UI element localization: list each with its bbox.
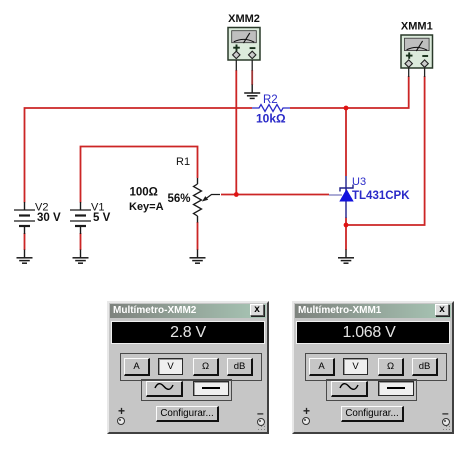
reading display 1.068 V <box>296 321 450 344</box>
battery V1 <box>70 202 111 235</box>
XMM1 pin stubs <box>409 68 425 77</box>
ground under V1 <box>73 250 89 264</box>
button AC <box>146 381 183 397</box>
wire XMM1 minus down to anode node <box>346 76 425 225</box>
wire XMM2 minus to ground <box>251 70 253 85</box>
reading display 2.8 V <box>111 321 265 344</box>
svg-text:10kΩ: 10kΩ <box>256 112 286 126</box>
wire TL431 cathode <box>345 108 347 176</box>
svg-text:XMM1: XMM1 <box>401 21 433 33</box>
svg-text:R1: R1 <box>176 156 190 168</box>
button AC <box>331 381 368 397</box>
svg-text:30 V: 30 V <box>37 212 61 224</box>
svg-text:TL431CPK: TL431CPK <box>352 190 410 202</box>
button DC (pressed) <box>193 381 229 396</box>
XMM2 pin stubs <box>236 60 252 71</box>
svg-text:XMM2: XMM2 <box>228 13 260 25</box>
node junction bus-cathode <box>344 106 349 111</box>
ground under XMM2 minus <box>244 85 260 99</box>
resistor R2 <box>252 94 290 126</box>
button Ohm <box>378 358 404 376</box>
plus terminal socket <box>117 417 125 425</box>
wire V2 top to bus <box>25 108 253 203</box>
wire node to XMM1 plus <box>346 76 409 108</box>
shunt regulator U3 TL431CPK <box>329 176 410 218</box>
close button <box>435 304 449 316</box>
button dB <box>227 358 253 376</box>
mode buttons frame <box>305 353 447 381</box>
ground under V2 <box>17 250 33 264</box>
wire V1 bottom to ground <box>80 233 82 250</box>
wire V2 bottom to ground <box>24 233 26 250</box>
minus terminal socket <box>257 418 265 426</box>
node junction anode <box>344 223 349 228</box>
button dB <box>412 358 438 376</box>
button A <box>124 358 150 376</box>
svg-text:56%: 56% <box>168 193 191 205</box>
resize grip <box>451 431 452 432</box>
wave buttons frame <box>326 379 417 401</box>
ground under U3 <box>338 250 354 264</box>
minus terminal label <box>442 406 449 420</box>
plus terminal label <box>303 404 310 418</box>
mode buttons frame <box>120 353 262 381</box>
svg-text:Key=A: Key=A <box>129 201 164 213</box>
plus terminal label <box>118 404 125 418</box>
multimeter icon XMM1 <box>401 21 433 69</box>
svg-text:R2: R2 <box>263 94 278 106</box>
configure button <box>156 406 219 422</box>
svg-text:100Ω: 100Ω <box>130 187 158 199</box>
multimeter icon XMM2 <box>228 13 260 60</box>
svg-text:5 V: 5 V <box>93 212 111 224</box>
button V (pressed) <box>158 358 183 375</box>
wire V1 top to R1 top <box>81 147 198 203</box>
minus terminal label <box>257 406 264 420</box>
close button <box>250 304 264 316</box>
wave buttons frame <box>141 379 232 401</box>
minus terminal socket <box>442 418 450 426</box>
multimeter window XMM1 <box>292 301 454 434</box>
battery V2 <box>14 202 61 235</box>
wire TL431 anode to ground <box>345 218 347 251</box>
resize grip <box>266 431 267 432</box>
configure button <box>341 406 404 422</box>
button Ohm <box>193 358 219 376</box>
svg-text:U3: U3 <box>352 176 366 188</box>
button DC (pressed) <box>378 381 414 396</box>
ground under R1 <box>190 250 206 264</box>
title bar XMM1 <box>295 304 451 318</box>
wire XMM2 plus to wiper node <box>235 70 237 195</box>
wire wiper to TL431 ref <box>221 194 329 196</box>
button V (pressed) <box>343 358 368 375</box>
node junction wiper <box>234 192 239 197</box>
plus terminal socket <box>302 417 310 425</box>
multimeter window XMM2 <box>107 301 269 434</box>
wire R1 bottom to ground <box>197 222 199 250</box>
potentiometer R1 <box>129 156 220 223</box>
wire R2 right to node <box>290 107 346 109</box>
button A <box>309 358 335 376</box>
title bar XMM2 <box>110 304 266 318</box>
